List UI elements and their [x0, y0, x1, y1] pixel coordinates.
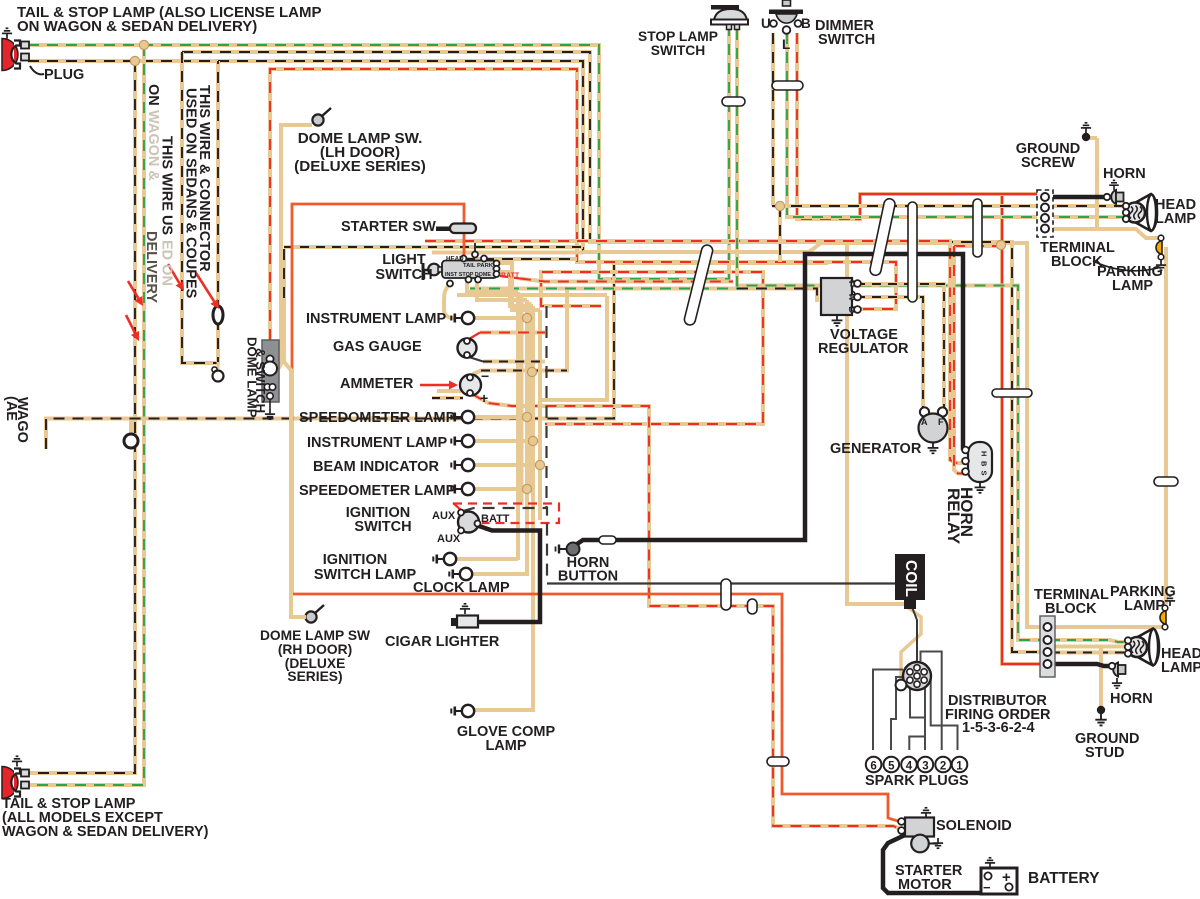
svg-text:INST STOP DOME: INST STOP DOME [445, 272, 491, 278]
svg-text:WAGO: WAGO [14, 397, 30, 443]
svg-text:INSTRUMENT LAMP: INSTRUMENT LAMP [307, 435, 447, 451]
svg-text:SPEEDOMETER LAMP: SPEEDOMETER LAMP [299, 483, 456, 499]
svg-text:A: A [921, 417, 928, 427]
svg-text:LAMP: LAMP [1124, 598, 1165, 614]
svg-text:AMMETER: AMMETER [340, 376, 414, 392]
svg-text:A: A [847, 294, 856, 300]
svg-text:ON WAGON & SEDAN DELIVERY): ON WAGON & SEDAN DELIVERY) [17, 18, 257, 35]
svg-text:MOTOR: MOTOR [898, 877, 952, 893]
svg-text:DOME LAMP SW: DOME LAMP SW [260, 628, 371, 643]
svg-text:HEAD: HEAD [446, 256, 464, 263]
svg-text:ED ON: ED ON [159, 240, 175, 286]
svg-text:WAGON & SEDAN DELIVERY): WAGON & SEDAN DELIVERY) [2, 824, 209, 840]
svg-text:LAMP: LAMP [485, 738, 526, 754]
svg-text:+: + [480, 390, 488, 406]
svg-text:BUTTON: BUTTON [558, 569, 618, 585]
svg-text:LAMP: LAMP [1161, 660, 1200, 676]
svg-text:ON: ON [145, 84, 161, 106]
svg-text:B: B [980, 461, 989, 467]
svg-text:BLOCK: BLOCK [1051, 254, 1103, 270]
svg-text:+: + [1002, 869, 1011, 886]
svg-text:GENERATOR: GENERATOR [830, 441, 922, 457]
svg-text:LAMP: LAMP [1112, 278, 1153, 294]
svg-text:B: B [801, 16, 811, 31]
svg-text:−: − [481, 368, 489, 384]
svg-text:TAIL PARK: TAIL PARK [463, 263, 494, 269]
svg-text:4: 4 [906, 760, 913, 772]
svg-text:STARTER SW: STARTER SW [341, 219, 436, 235]
svg-text:SWITCH: SWITCH [375, 267, 432, 283]
svg-text:BATTERY: BATTERY [1028, 870, 1100, 887]
svg-text:BLOCK: BLOCK [1045, 601, 1097, 617]
svg-text:AUX: AUX [437, 533, 461, 545]
svg-text:1: 1 [956, 760, 963, 772]
svg-text:(RH DOOR): (RH DOOR) [278, 642, 352, 657]
svg-text:DELIVERY: DELIVERY [143, 231, 159, 303]
svg-text:B: B [847, 307, 856, 313]
svg-text:U: U [761, 16, 771, 31]
svg-text:BEAM INDICATOR: BEAM INDICATOR [313, 459, 439, 475]
svg-text:SWITCH: SWITCH [651, 43, 705, 58]
svg-text:SWITCH: SWITCH [818, 32, 875, 48]
svg-text:6: 6 [870, 760, 876, 772]
svg-text:HORN: HORN [1103, 166, 1146, 182]
svg-text:& SWITCH: & SWITCH [253, 348, 268, 413]
svg-text:USED ON SEDANS & COUPES: USED ON SEDANS & COUPES [183, 88, 199, 299]
svg-text:CLOCK LAMP: CLOCK LAMP [413, 580, 510, 596]
svg-text:CIGAR LIGHTER: CIGAR LIGHTER [385, 634, 500, 650]
svg-text:GAS GAUGE: GAS GAUGE [333, 339, 422, 355]
svg-text:HORN: HORN [1110, 691, 1153, 707]
svg-text:SOLENOID: SOLENOID [936, 818, 1012, 834]
svg-text:(DELUXE SERIES): (DELUXE SERIES) [294, 158, 426, 175]
svg-text:INSTRUMENT LAMP: INSTRUMENT LAMP [306, 311, 446, 327]
svg-text:PLUG: PLUG [44, 67, 84, 83]
svg-text:−: − [983, 880, 991, 895]
svg-text:LIGHT: LIGHT [382, 252, 426, 268]
svg-text:SWITCH LAMP: SWITCH LAMP [314, 567, 417, 583]
svg-text:F: F [938, 417, 944, 427]
svg-text:BATT: BATT [481, 513, 510, 525]
svg-text:F: F [847, 281, 856, 286]
svg-text:SPEEDOMETER LAMP: SPEEDOMETER LAMP [299, 410, 456, 426]
svg-text:RELAY: RELAY [944, 488, 963, 545]
svg-text:STOP LAMP: STOP LAMP [638, 29, 718, 44]
svg-text:SCREW: SCREW [1021, 155, 1075, 171]
svg-text:SPARK PLUGS: SPARK PLUGS [865, 773, 969, 789]
svg-text:REGULATOR: REGULATOR [818, 341, 909, 357]
svg-text:5: 5 [888, 760, 895, 772]
svg-text:LAMP: LAMP [1155, 211, 1196, 227]
svg-text:3: 3 [922, 760, 928, 772]
svg-text:1-5-3-6-2-4: 1-5-3-6-2-4 [962, 720, 1035, 736]
svg-text:H: H [980, 451, 989, 456]
svg-text:2: 2 [940, 760, 946, 772]
svg-text:COIL: COIL [902, 560, 919, 597]
svg-text:SWITCH: SWITCH [354, 519, 411, 535]
svg-text:AUX: AUX [432, 510, 456, 522]
svg-text:STUD: STUD [1085, 745, 1124, 761]
svg-text:WAGON &: WAGON & [145, 110, 161, 181]
svg-text:L: L [782, 37, 790, 52]
svg-text:SERIES): SERIES) [287, 669, 342, 684]
svg-text:BATT: BATT [501, 273, 520, 280]
svg-text:S: S [980, 471, 989, 476]
svg-text:IGNITION: IGNITION [323, 552, 387, 568]
